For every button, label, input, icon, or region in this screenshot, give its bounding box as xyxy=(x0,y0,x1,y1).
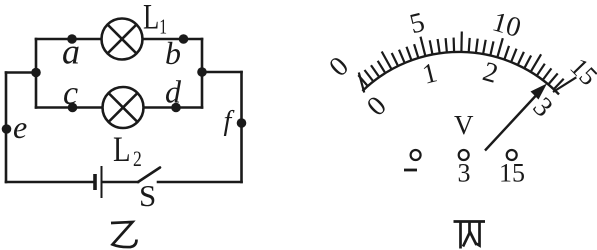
svg-text:V: V xyxy=(454,110,474,140)
wire right outer vertical xyxy=(240,72,243,182)
svg-text:d: d xyxy=(165,74,182,110)
wire left connector xyxy=(6,71,36,74)
node b dot xyxy=(179,34,189,44)
terminal minus xyxy=(411,150,421,160)
svg-text:0: 0 xyxy=(323,51,355,83)
node f dot xyxy=(237,118,247,128)
svg-text:0: 0 xyxy=(361,90,393,122)
wire left branch vertical xyxy=(35,39,38,108)
svg-text:10: 10 xyxy=(489,6,524,44)
wire left outer vertical xyxy=(5,73,8,183)
wire right connector xyxy=(202,71,242,74)
wire middle branch xyxy=(36,106,202,109)
svg-text:15: 15 xyxy=(499,159,525,188)
wire battery to switch xyxy=(102,181,138,184)
svg-text:3: 3 xyxy=(458,159,471,188)
dial inner scale labels xyxy=(361,56,559,123)
svg-text:a: a xyxy=(62,32,80,72)
svg-text:b: b xyxy=(165,35,181,71)
terminal label minus xyxy=(404,169,417,172)
node c dot xyxy=(68,103,78,113)
svg-text:e: e xyxy=(13,109,27,145)
wire top branch xyxy=(36,38,202,41)
label 乙 (drawn) xyxy=(111,222,137,247)
voltmeter ticks xyxy=(358,32,576,93)
dial outer scale labels xyxy=(323,6,597,91)
voltmeter arc baseline xyxy=(362,52,559,94)
switch S blade xyxy=(138,168,160,183)
svg-text:L2: L2 xyxy=(113,130,142,171)
wire right branch vertical xyxy=(201,39,204,108)
terminal 15 xyxy=(507,150,517,160)
svg-text:3: 3 xyxy=(527,92,559,124)
svg-text:1: 1 xyxy=(419,57,440,90)
svg-text:f: f xyxy=(224,106,235,137)
junction left dot xyxy=(31,68,41,78)
node e dot xyxy=(2,124,12,134)
needle xyxy=(485,84,547,151)
battery positive plate xyxy=(101,166,103,198)
svg-text:c: c xyxy=(63,75,78,112)
wire switch to right xyxy=(158,181,242,184)
node d dot xyxy=(171,103,181,113)
svg-text:S: S xyxy=(139,178,156,213)
wire bottom left xyxy=(6,181,94,184)
lamp L1 xyxy=(102,19,143,60)
node a dot xyxy=(67,34,77,44)
junction right dot xyxy=(197,67,207,77)
battery negative plate xyxy=(93,174,97,190)
svg-text:2: 2 xyxy=(479,56,501,90)
svg-text:L1: L1 xyxy=(143,0,167,38)
svg-text:15: 15 xyxy=(564,52,597,91)
label 丙 (drawn) xyxy=(454,222,486,249)
lamp L2 xyxy=(103,87,144,128)
terminal 3 xyxy=(459,150,469,160)
svg-text:5: 5 xyxy=(407,7,428,40)
